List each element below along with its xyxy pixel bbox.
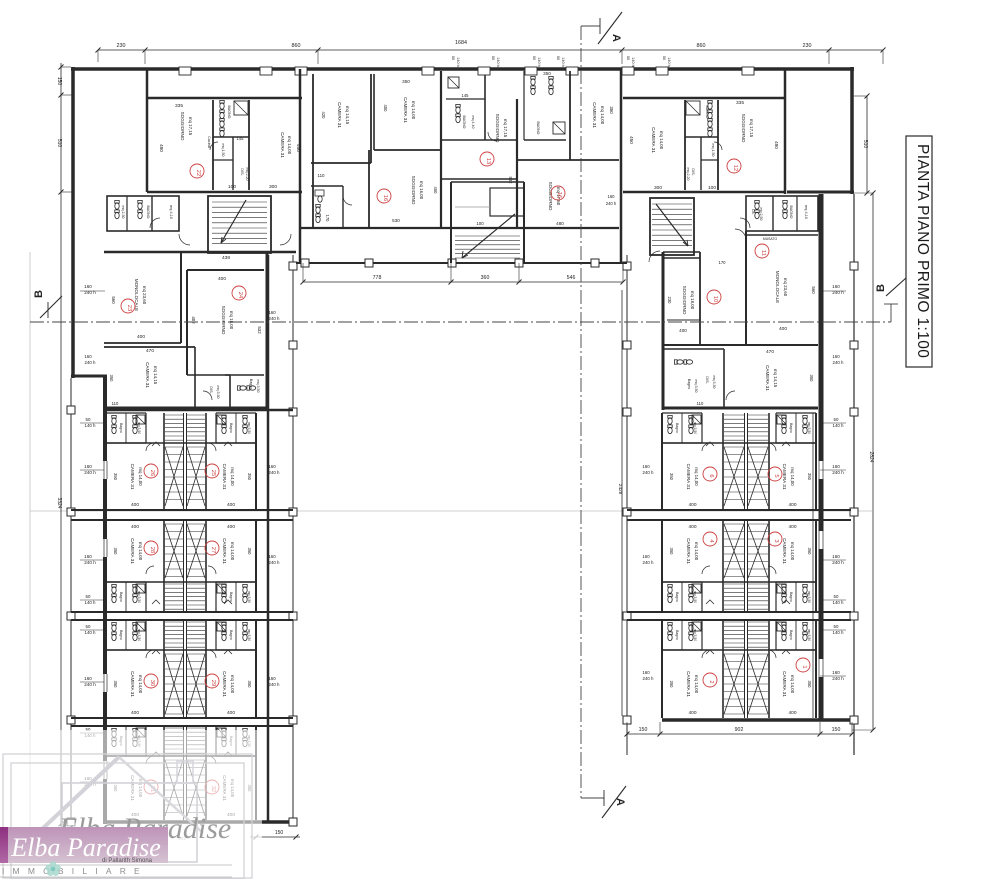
unit circle 12 (727, 159, 741, 173)
logo white script Elba Paradise (10, 833, 161, 862)
svg-text:mq 3,50: mq 3,50 (807, 422, 811, 434)
svg-text:mq 3,50: mq 3,50 (256, 380, 260, 393)
svg-text:50: 50 (834, 594, 839, 599)
balcony edge left wing courtyard side (289, 255, 297, 826)
left corner block camera row walls (104, 347, 195, 408)
svg-text:140 h: 140 h (561, 57, 565, 67)
svg-text:100: 100 (228, 184, 236, 190)
svg-text:mq 23,60: mq 23,60 (783, 278, 788, 297)
balcony edge right wing courtyard side (623, 255, 631, 755)
unit circle 22 (190, 164, 204, 178)
svg-text:24: 24 (237, 292, 243, 299)
svg-text:350: 350 (109, 375, 114, 383)
left wing bottom wall (104, 820, 296, 824)
svg-text:160: 160 (608, 194, 616, 199)
svg-text:mq 14,00: mq 14,00 (230, 542, 235, 561)
svg-text:400: 400 (137, 334, 145, 340)
svg-text:mq 4,40: mq 4,40 (471, 116, 475, 129)
unit circle 17 (480, 152, 494, 166)
svg-text:50: 50 (532, 56, 536, 60)
svg-text:mq 14,00: mq 14,00 (138, 467, 143, 486)
svg-text:140 h: 140 h (537, 57, 541, 67)
svg-text:mq 17,15: mq 17,15 (503, 119, 508, 138)
svg-text:150: 150 (275, 830, 284, 836)
svg-text:PIANTA PIANO PRIMO 1:100: PIANTA PIANO PRIMO 1:100 (914, 144, 931, 358)
svg-text:140 h: 140 h (833, 423, 845, 428)
top wall micro dimension labels (451, 56, 671, 67)
balcony edge far right (850, 194, 858, 755)
svg-text:100: 100 (476, 221, 484, 226)
dimension line right wing bottom (625, 722, 855, 737)
svg-text:400: 400 (227, 502, 235, 508)
unit circle 10 (707, 290, 721, 304)
svg-text:28: 28 (149, 547, 155, 553)
svg-text:SOGGIORNO: SOGGIORNO (682, 286, 687, 315)
apartment 10 walls (663, 252, 700, 345)
apartment 12 walls (623, 98, 785, 192)
svg-text:mq 3,50: mq 3,50 (247, 591, 251, 603)
svg-text:mq 14,00: mq 14,00 (790, 675, 795, 694)
svg-text:A: A (614, 798, 626, 806)
outer wall left step (71, 375, 107, 378)
svg-text:mq 23,60: mq 23,60 (142, 286, 147, 305)
svg-text:6: 6 (708, 474, 714, 477)
svg-text:100: 100 (708, 185, 716, 191)
apartment 22 shower (234, 101, 248, 115)
svg-text:350: 350 (807, 473, 812, 481)
svg-text:Bagno: Bagno (119, 592, 123, 602)
logo IMMOBILIARE text (2, 866, 148, 876)
svg-text:400: 400 (218, 276, 226, 282)
left corner block bath (203, 375, 264, 400)
svg-text:mq 14,00: mq 14,00 (659, 131, 664, 150)
svg-text:mq 18,00: mq 18,00 (690, 291, 695, 310)
left wing floor walls y512 (71, 510, 293, 520)
svg-text:mq 3,50: mq 3,50 (247, 629, 251, 641)
logo immobiliare rules (0, 865, 232, 877)
svg-text:50: 50 (86, 594, 91, 599)
svg-text:400: 400 (779, 326, 787, 332)
svg-text:110: 110 (318, 173, 326, 178)
svg-text:mq 1,50: mq 1,50 (711, 144, 715, 157)
svg-text:CAMERA 31: CAMERA 31 (686, 671, 691, 697)
svg-text:350: 350 (807, 681, 812, 689)
svg-text:26: 26 (149, 470, 155, 476)
apartment 16 bath fixtures (531, 76, 565, 134)
dimension line left (150/510/3324) (56, 63, 73, 841)
right corner block camera row walls (663, 349, 818, 408)
svg-text:2: 2 (708, 680, 714, 683)
svg-text:240 h: 240 h (832, 560, 844, 565)
apartment 17 bath fixtures (448, 77, 497, 141)
svg-text:Bagno: Bagno (789, 423, 793, 433)
svg-text:mq 14,00: mq 14,00 (411, 101, 416, 120)
svg-text:mq 3,30: mq 3,30 (216, 386, 220, 399)
svg-text:BAGNO: BAGNO (146, 206, 150, 219)
unit circle 23 (121, 299, 135, 313)
svg-text:400: 400 (383, 105, 388, 113)
svg-text:mq 14,00: mq 14,00 (138, 542, 143, 561)
svg-text:29: 29 (210, 680, 216, 686)
svg-text:mq 14,00: mq 14,00 (694, 542, 699, 561)
svg-text:Bagno: Bagno (675, 630, 679, 640)
outer wall left upper (71, 67, 75, 378)
svg-text:400: 400 (688, 502, 696, 508)
svg-text:mq 14,00: mq 14,00 (600, 106, 605, 125)
logo watermark house (25, 757, 203, 862)
svg-text:335: 335 (175, 103, 183, 109)
svg-text:240 h: 240 h (269, 316, 281, 321)
svg-text:SOGGIORNO: SOGGIORNO (741, 114, 746, 143)
svg-text:mq 3,50: mq 3,50 (247, 422, 251, 434)
dimension line left wing bottom (178, 830, 300, 842)
svg-text:Bagno: Bagno (229, 592, 233, 602)
svg-text:Bagno: Bagno (229, 630, 233, 640)
courtyard terrace edge of top bar (296, 259, 627, 267)
svg-text:1684: 1684 (455, 40, 467, 46)
svg-text:CAMERA 31: CAMERA 31 (651, 127, 656, 153)
svg-text:50: 50 (834, 624, 839, 629)
dimension line right 510 (854, 94, 873, 196)
svg-text:140 h: 140 h (85, 600, 97, 605)
svg-text:350: 350 (669, 548, 674, 556)
svg-text:240 h: 240 h (85, 360, 97, 365)
svg-text:150: 150 (639, 727, 648, 733)
courtyard side micro labels (268, 310, 654, 687)
svg-text:1: 1 (801, 665, 807, 668)
svg-text:470: 470 (766, 349, 774, 355)
right wing module row 1 (units 6,5) (662, 413, 816, 510)
svg-text:CAMERA 31: CAMERA 31 (765, 365, 770, 391)
svg-text:mq 2,50: mq 2,50 (759, 208, 763, 221)
svg-text:240 h: 240 h (833, 360, 845, 365)
svg-text:11: 11 (760, 250, 766, 256)
svg-text:350: 350 (609, 106, 614, 114)
svg-text:mq 14,00: mq 14,00 (694, 467, 699, 486)
svg-text:240 h: 240 h (606, 201, 617, 206)
svg-text:160: 160 (84, 554, 92, 559)
svg-text:400: 400 (679, 328, 687, 333)
outer wall right wing (819, 194, 824, 720)
dimension line right wing inner 2428 (617, 290, 623, 716)
left wing floor walls y720 (71, 718, 293, 726)
right wing floor walls y512 (627, 510, 851, 520)
svg-text:10: 10 (712, 296, 718, 302)
svg-text:DIS.: DIS. (705, 376, 709, 383)
outer wall top (71, 67, 854, 71)
dimension line top (96, 40, 886, 64)
logo purple band (0, 827, 168, 863)
windows on right wing outer wall (817, 461, 825, 677)
section line A vertical (580, 26, 582, 798)
svg-text:CAMERA 31: CAMERA 31 (130, 538, 135, 564)
unit circle 11 (755, 244, 769, 258)
wall between apartment 12 and right terrace (784, 69, 787, 194)
svg-text:mq 14,15: mq 14,15 (345, 106, 350, 125)
svg-text:480: 480 (556, 221, 564, 226)
svg-text:mq 14,00: mq 14,00 (790, 467, 795, 486)
svg-text:Bagno: Bagno (119, 630, 123, 640)
svg-text:5: 5 (773, 474, 779, 477)
svg-text:240 h: 240 h (84, 470, 96, 475)
svg-text:mq 3,50: mq 3,50 (807, 591, 811, 603)
svg-text:mq 18,00: mq 18,00 (229, 311, 234, 330)
svg-text:mq 14,00: mq 14,00 (138, 675, 143, 694)
apartment 16 walls (517, 71, 619, 160)
apartment 16 labels (536, 71, 617, 226)
svg-text:12: 12 (732, 165, 738, 171)
svg-text:DIS.: DIS. (209, 386, 213, 393)
svg-text:160: 160 (268, 464, 276, 469)
logo gray script Elba Paradise (58, 812, 232, 845)
svg-text:145: 145 (462, 93, 470, 98)
svg-text:170: 170 (325, 215, 330, 223)
svg-text:mq 14,00: mq 14,00 (694, 675, 699, 694)
svg-text:240 h: 240 h (269, 560, 281, 565)
svg-text:B: B (33, 290, 45, 298)
svg-text:16: 16 (382, 195, 388, 201)
svg-text:350: 350 (247, 681, 252, 689)
svg-text:400: 400 (688, 524, 696, 530)
wall between apartment 16 and apartment 12 zone (620, 69, 623, 263)
stair core top-left (208, 196, 271, 253)
svg-text:CAMERA 31: CAMERA 31 (337, 102, 342, 128)
svg-text:860: 860 (697, 43, 706, 49)
svg-text:778: 778 (373, 275, 382, 281)
svg-text:110: 110 (112, 401, 119, 406)
svg-text:110: 110 (697, 401, 704, 406)
outer wall right (terrace section) (850, 67, 854, 194)
apartment 23 labels (111, 279, 147, 340)
svg-text:160: 160 (84, 676, 92, 681)
windows on left wing outer wall (102, 461, 109, 779)
left wing module row 3 (units 30,29) (106, 620, 256, 718)
right corner block outer walls (663, 252, 818, 410)
ground-floor outline (faint) (30, 252, 872, 848)
wall between apartment 22 zone and apartment 18 (299, 69, 302, 263)
left wing courtyard-side wall (267, 255, 270, 822)
section marker B right (875, 278, 906, 322)
outer wall left lower (103, 376, 107, 824)
svg-text:140 h: 140 h (631, 57, 635, 67)
right wing bottom wall (662, 718, 852, 722)
svg-text:140 h: 140 h (667, 57, 671, 67)
svg-text:480: 480 (774, 141, 779, 149)
svg-text:mq 3,50: mq 3,50 (807, 629, 811, 641)
svg-text:350: 350 (247, 473, 252, 481)
svg-text:240 h: 240 h (643, 560, 655, 565)
left wing floor walls y616 (71, 612, 293, 620)
svg-text:SOGGIORNO: SOGGIORNO (180, 112, 185, 141)
svg-text:240 h: 240 h (832, 470, 844, 475)
apartment 22 room labels (159, 103, 301, 190)
svg-text:CAMERA 31: CAMERA 31 (145, 362, 150, 388)
svg-text:160: 160 (642, 464, 650, 469)
svg-text:160: 160 (642, 670, 650, 675)
svg-text:mq 4,10: mq 4,10 (804, 205, 808, 219)
svg-text:CAMERA 31: CAMERA 31 (592, 102, 597, 128)
svg-text:240 h: 240 h (269, 470, 281, 475)
svg-text:240 h: 240 h (832, 676, 844, 681)
svg-text:560: 560 (811, 286, 816, 294)
unit circle 16 (551, 186, 565, 200)
apartment 22 bath fixtures (210, 100, 224, 150)
right corner block bath (674, 360, 735, 400)
svg-text:Bagno: Bagno (789, 592, 793, 602)
svg-text:CAMERA 31: CAMERA 31 (130, 464, 135, 490)
svg-text:532: 532 (257, 326, 262, 334)
svg-text:Cucina: Cucina (207, 136, 211, 149)
svg-text:mq 14,15: mq 14,15 (773, 369, 778, 388)
svg-text:400: 400 (131, 502, 139, 508)
svg-text:400: 400 (227, 524, 235, 530)
svg-text:400: 400 (131, 524, 139, 530)
svg-text:Bagno: Bagno (675, 423, 679, 433)
svg-text:50: 50 (491, 56, 495, 60)
svg-text:50: 50 (86, 624, 91, 629)
left wing module row 2 (units 28,27) (106, 520, 256, 612)
svg-text:B: B (875, 284, 887, 292)
left wing module row 1 (units 26,25) (106, 413, 256, 510)
section line B horizontal (30, 321, 891, 323)
svg-text:3324: 3324 (56, 497, 62, 508)
apartment 11 walls (663, 231, 818, 345)
apartment 18 walls (311, 71, 441, 228)
right wing floor walls y616 (627, 612, 851, 620)
svg-text:420: 420 (321, 112, 326, 120)
svg-text:160: 160 (832, 670, 840, 675)
svg-text:mq 3,30: mq 3,30 (712, 376, 716, 389)
svg-text:350: 350 (669, 473, 674, 481)
svg-text:350: 350 (113, 473, 118, 481)
svg-text:SOGGIORNO: SOGGIORNO (495, 114, 500, 143)
windows top wall (179, 67, 754, 75)
svg-text:450: 450 (433, 187, 438, 195)
svg-text:50: 50 (86, 417, 91, 422)
svg-text:530: 530 (392, 218, 400, 223)
svg-text:Bagno: Bagno (119, 423, 123, 433)
svg-text:160: 160 (268, 554, 276, 559)
right wing module row 3 (units 2,1) (662, 620, 816, 718)
svg-text:mq 2,30: mq 2,30 (121, 206, 125, 219)
svg-text:240 h: 240 h (84, 560, 96, 565)
svg-text:400: 400 (688, 710, 696, 716)
svg-text:2824: 2824 (868, 451, 874, 462)
svg-text:mq 17,15: mq 17,15 (188, 117, 193, 136)
svg-text:160: 160 (832, 464, 840, 469)
svg-text:50: 50 (662, 56, 666, 60)
svg-text:IMMOBILIARE: IMMOBILIARE (2, 866, 148, 876)
svg-text:140 h: 140 h (85, 423, 97, 428)
svg-text:mq 17,15: mq 17,15 (749, 119, 754, 138)
svg-text:150: 150 (832, 727, 841, 733)
svg-text:140 h: 140 h (833, 600, 845, 605)
svg-text:350: 350 (402, 79, 410, 84)
svg-text:350: 350 (543, 71, 551, 76)
svg-text:350: 350 (809, 375, 814, 383)
left corner block camera labels (109, 348, 158, 406)
svg-text:160: 160 (832, 554, 840, 559)
apartment 17 walls (441, 75, 517, 228)
svg-text:A: A (610, 34, 622, 42)
center stair core (451, 182, 524, 263)
svg-text:402: 402 (191, 316, 196, 324)
svg-text:mq 1,50: mq 1,50 (221, 144, 225, 157)
apartment 22 walls (147, 98, 302, 192)
svg-text:DIS.: DIS. (691, 168, 695, 175)
apartment 10 labels (667, 260, 726, 333)
svg-text:240 h: 240 h (643, 470, 655, 475)
apartment 12 labels (629, 100, 779, 191)
svg-text:mq 14,15: mq 14,15 (153, 366, 158, 385)
logo watermark frame (3, 754, 252, 879)
svg-text:BAGNO: BAGNO (705, 106, 709, 119)
svg-text:mq 4,10: mq 4,10 (169, 205, 173, 219)
corridor bath cluster right (apartment 11 zone) (740, 196, 818, 231)
svg-text:BAGNO: BAGNO (536, 122, 540, 135)
svg-text:240 h: 240 h (84, 682, 96, 687)
svg-text:400: 400 (131, 710, 139, 716)
svg-text:Bagno: Bagno (229, 423, 233, 433)
apartment 18 bath fixtures (315, 190, 352, 223)
svg-text:mq 14,00: mq 14,00 (790, 542, 795, 561)
svg-text:400: 400 (227, 710, 235, 716)
svg-text:470: 470 (146, 348, 154, 354)
svg-text:SOGGIORNO: SOGGIORNO (411, 176, 416, 205)
apartment 24 labels (191, 255, 262, 335)
svg-text:mq 2,20: mq 2,20 (245, 168, 249, 181)
apartment 24 walls (187, 270, 264, 408)
svg-text:230: 230 (803, 43, 812, 49)
svg-text:CAMERA 31: CAMERA 31 (686, 538, 691, 564)
svg-text:CAMERA 31: CAMERA 31 (222, 671, 227, 697)
svg-text:3: 3 (773, 539, 779, 542)
svg-text:22: 22 (195, 170, 201, 176)
logo flower glyph (45, 861, 60, 876)
svg-text:BAGNO: BAGNO (227, 106, 231, 119)
svg-text:Bagno: Bagno (687, 379, 691, 389)
unit circle 18 (377, 189, 391, 203)
svg-text:Ds.: Ds. (751, 209, 755, 214)
svg-text:25: 25 (210, 470, 216, 476)
svg-text:160: 160 (84, 284, 92, 289)
svg-text:MONOLOCALE: MONOLOCALE (775, 271, 780, 303)
svg-text:532: 532 (508, 177, 513, 185)
center apartments bottom wall (300, 227, 619, 229)
section marker B left (30, 290, 62, 322)
balcony edge far left (67, 378, 75, 850)
svg-text:30: 30 (149, 680, 155, 686)
svg-text:240 h: 240 h (269, 682, 281, 687)
svg-text:140 h: 140 h (496, 57, 500, 67)
svg-text:SOGGIORNO: SOGGIORNO (221, 306, 226, 335)
unit circle 24 (232, 286, 246, 300)
logo subtitle di Pallarith Simona (102, 858, 153, 864)
right corner block camera labels (697, 349, 814, 406)
section marker A bottom (581, 786, 626, 818)
svg-text:300: 300 (269, 184, 277, 190)
svg-text:MUSATO: MUSATO (763, 237, 778, 241)
svg-text:335: 335 (736, 100, 744, 106)
svg-text:350: 350 (113, 548, 118, 556)
apartment 12 bath fixtures (708, 100, 722, 150)
svg-text:160: 160 (268, 310, 276, 315)
svg-text:350: 350 (669, 681, 674, 689)
svg-text:50: 50 (834, 417, 839, 422)
svg-text:230: 230 (117, 43, 126, 49)
svg-text:Bagno: Bagno (789, 630, 793, 640)
svg-text:160: 160 (84, 464, 92, 469)
